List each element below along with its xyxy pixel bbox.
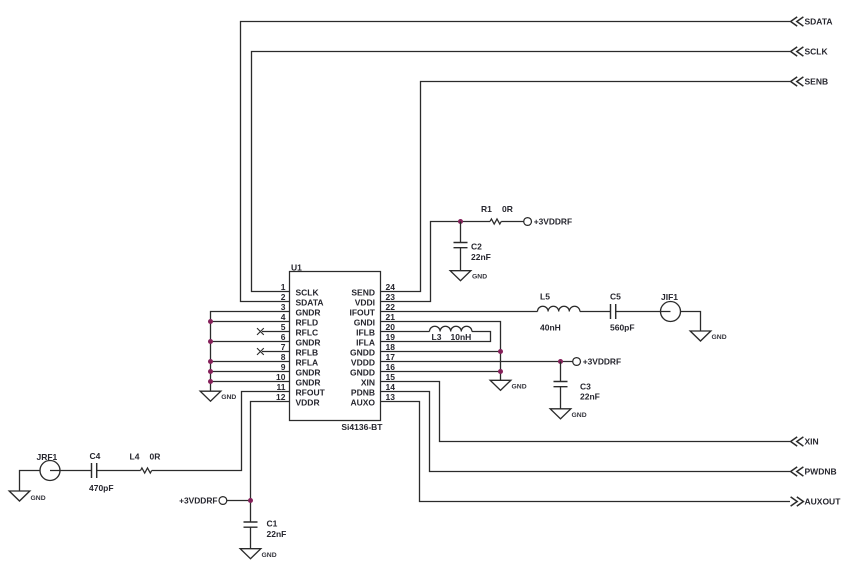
svg-text:10: 10: [276, 372, 286, 382]
ground JRF1: [9, 491, 45, 502]
svg-text:L3: L3: [432, 332, 442, 342]
svg-text:20: 20: [386, 322, 396, 332]
svg-text:VDDD: VDDD: [351, 358, 375, 368]
svg-text:6: 6: [281, 332, 286, 342]
wire GND bus left of U1 (pin 3): [211, 312, 290, 392]
wire net GNDI (pin 21 to ground): [381, 322, 501, 381]
svg-text:GND: GND: [712, 334, 727, 341]
svg-text:R1: R1: [481, 204, 492, 214]
resistor L4 (0R): [130, 452, 161, 474]
svg-text:22nF: 22nF: [580, 391, 600, 401]
ground C2: [450, 271, 487, 281]
no-connect X pin 7: [257, 348, 290, 355]
junction R1/C2 node: [458, 219, 463, 224]
svg-text:L4: L4: [130, 452, 140, 462]
svg-text:10nH: 10nH: [451, 332, 472, 342]
junction pin 4 node: [208, 319, 213, 324]
resistor R1: [481, 204, 513, 224]
wire net AUXOUT (pin 13 to port): [381, 402, 791, 502]
svg-text:16: 16: [386, 362, 396, 372]
wire pin 6 to GND bus: [211, 341, 290, 343]
svg-text:1: 1: [281, 282, 286, 292]
svg-text:13: 13: [386, 392, 396, 402]
wire net SDATA (pin 2 to port): [241, 22, 791, 302]
svg-text:GND: GND: [221, 394, 236, 401]
svg-text:VDDR: VDDR: [296, 398, 320, 408]
IC U1 Si4136-BT body: [290, 262, 384, 432]
wire R1 to +3VDDRF: [501, 221, 523, 223]
svg-text:9: 9: [281, 362, 286, 372]
wire JRF1 to ground: [20, 471, 41, 492]
junction VDDD/C3 node: [558, 359, 563, 364]
wire net VDDD (pin 17 to +3VDDRF): [381, 361, 573, 363]
svg-text:22nF: 22nF: [471, 252, 491, 262]
wire pin 18 GNDD: [381, 351, 501, 353]
svg-text:GNDR: GNDR: [296, 368, 321, 378]
wire pin 4 to GND bus: [211, 321, 290, 323]
svg-text:XIN: XIN: [805, 437, 819, 447]
svg-text:7: 7: [281, 342, 286, 352]
svg-text:14: 14: [386, 382, 396, 392]
wire net RFOUT (pin 11 to L4): [152, 392, 290, 471]
junction pin 8 node: [208, 359, 213, 364]
svg-text:U1: U1: [291, 262, 302, 272]
svg-text:19: 19: [386, 332, 396, 342]
svg-text:C5: C5: [610, 292, 621, 302]
svg-text:GNDR: GNDR: [296, 338, 321, 348]
svg-text:AUXO: AUXO: [350, 398, 375, 408]
svg-text:0R: 0R: [150, 452, 161, 462]
junction pin 9 node: [208, 369, 213, 374]
svg-text:23: 23: [386, 292, 396, 302]
port XIN: [791, 437, 819, 447]
svg-text:22nF: 22nF: [267, 529, 287, 539]
svg-text:11: 11: [277, 382, 286, 392]
svg-text:15: 15: [386, 372, 396, 382]
svg-text:SCLK: SCLK: [296, 288, 320, 298]
svg-text:IFLA: IFLA: [356, 338, 375, 348]
svg-text:JIF1: JIF1: [661, 292, 678, 302]
svg-text:+3VDDRF: +3VDDRF: [583, 357, 621, 367]
svg-text:C4: C4: [90, 451, 101, 461]
port AUXOUT: [791, 497, 842, 507]
svg-text:3: 3: [281, 302, 286, 312]
capacitor C3: [554, 362, 600, 409]
svg-text:IFOUT: IFOUT: [350, 308, 376, 318]
svg-text:AUXOUT: AUXOUT: [805, 497, 842, 507]
inductor L3 (between pins 20 and 19): [381, 326, 491, 342]
junction pin 16 node: [498, 369, 503, 374]
svg-text:XIN: XIN: [361, 378, 375, 388]
junction VDDR/C1 node: [248, 498, 253, 503]
svg-text:RFLB: RFLB: [296, 348, 319, 358]
wire net VDDR (pin 12 to C1): [251, 402, 290, 523]
inductor L5: [538, 292, 580, 333]
power port +3VDDRF at C1: [179, 496, 227, 506]
svg-text:RFLC: RFLC: [296, 328, 319, 338]
svg-text:560pF: 560pF: [610, 323, 635, 333]
svg-text:RFLA: RFLA: [296, 358, 319, 368]
svg-text:SENB: SENB: [805, 77, 829, 87]
wire net VDDI (pin 23 to R1): [381, 222, 491, 302]
svg-text:SDATA: SDATA: [296, 298, 324, 308]
connector JRF1: [37, 452, 92, 481]
wire net SCLK (pin 1 to port): [252, 52, 791, 292]
wire pin 9 to GND bus: [211, 371, 290, 373]
svg-text:470pF: 470pF: [89, 483, 114, 493]
wire pin 8 to GND bus: [211, 361, 290, 363]
wire pin 16 GNDD: [381, 371, 501, 373]
svg-text:40nH: 40nH: [540, 323, 561, 333]
svg-text:GNDD: GNDD: [350, 368, 375, 378]
svg-text:8: 8: [281, 352, 286, 362]
svg-text:C1: C1: [267, 518, 278, 528]
svg-text:RFOUT: RFOUT: [296, 388, 326, 398]
svg-text:18: 18: [386, 342, 396, 352]
svg-text:VDDI: VDDI: [355, 298, 375, 308]
svg-text:GNDR: GNDR: [296, 308, 321, 318]
svg-text:IFLB: IFLB: [356, 328, 375, 338]
wire L4 to C4: [97, 470, 141, 472]
capacitor C5: [610, 292, 635, 333]
svg-text:C2: C2: [471, 241, 482, 251]
svg-text:C3: C3: [580, 381, 591, 391]
capacitor C1: [244, 518, 287, 548]
wire pin 10 to GND bus: [211, 381, 290, 383]
svg-text:GND: GND: [512, 383, 527, 390]
svg-text:+3VDDRF: +3VDDRF: [179, 496, 217, 506]
ground bus GND symbol: [200, 391, 236, 401]
no-connect X pin 5: [257, 328, 290, 335]
svg-text:SCLK: SCLK: [805, 47, 829, 57]
svg-text:GND: GND: [472, 274, 487, 281]
port SDATA: [791, 17, 833, 27]
svg-text:GND: GND: [31, 495, 46, 502]
wire +3VDDRF to VDDR: [227, 500, 251, 502]
junction pin 10 node: [208, 379, 213, 384]
svg-text:SEND: SEND: [351, 288, 375, 298]
port PWDNB: [791, 467, 837, 477]
svg-text:JRF1: JRF1: [37, 452, 58, 462]
port SENB: [791, 77, 829, 87]
svg-text:4: 4: [281, 312, 286, 322]
svg-text:SDATA: SDATA: [805, 17, 833, 27]
ground C1: [240, 549, 276, 559]
svg-text:PWDNB: PWDNB: [805, 467, 837, 477]
svg-text:GNDI: GNDI: [354, 318, 375, 328]
ground GNDD bus: [490, 380, 526, 390]
svg-text:12: 12: [276, 392, 286, 402]
svg-text:L5: L5: [540, 292, 550, 302]
wire L5 to C5: [580, 311, 611, 313]
svg-text:21: 21: [386, 312, 396, 322]
svg-text:2: 2: [281, 292, 286, 302]
svg-text:17: 17: [386, 352, 396, 362]
power port +3VDDRF at R1: [524, 217, 572, 227]
svg-text:0R: 0R: [502, 204, 513, 214]
connector JIF1: [616, 292, 681, 322]
svg-text:GND: GND: [262, 552, 277, 559]
svg-text:GND: GND: [572, 412, 587, 419]
ground C3: [550, 409, 586, 419]
svg-text:GNDD: GNDD: [350, 348, 375, 358]
svg-text:GNDR: GNDR: [296, 378, 321, 388]
svg-text:PDNB: PDNB: [351, 388, 375, 398]
port SCLK: [791, 47, 829, 57]
capacitor C2: [454, 222, 491, 271]
svg-text:5: 5: [281, 322, 286, 332]
wire net XIN (pin 15 to port): [381, 382, 791, 442]
wire net SENB (pin 24 to port): [381, 82, 791, 292]
ground JIF1: [690, 331, 726, 341]
capacitor C4: [89, 451, 114, 493]
wire JIF1 to ground: [681, 312, 701, 332]
svg-text:24: 24: [386, 282, 396, 292]
svg-text:22: 22: [386, 302, 396, 312]
svg-text:+3VDDRF: +3VDDRF: [534, 217, 572, 227]
svg-text:Si4136-BT: Si4136-BT: [341, 422, 383, 432]
wire net IFOUT (pin 22 to L5): [381, 311, 538, 313]
svg-text:RFLD: RFLD: [296, 318, 319, 328]
junction pin 18 node: [498, 349, 503, 354]
junction pin 6 node: [208, 339, 213, 344]
power port +3VDDRF at C3: [573, 357, 621, 367]
wire net PWDNB (pin 14 to port): [381, 392, 791, 472]
